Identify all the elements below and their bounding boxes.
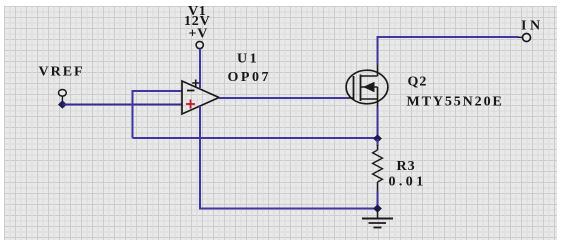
svg-text:+V: +V (189, 27, 209, 42)
power symbol +V (189, 27, 209, 49)
op-amp U1 (182, 80, 219, 115)
wire feedback horizontal to R3 top node (133, 137, 378, 139)
wire Q2 source down to R3 (377, 107, 379, 139)
junction R3 top node (373, 134, 382, 143)
ground (362, 209, 393, 228)
transistor Q2 (346, 64, 388, 107)
wire V- run to ground node (199, 208, 378, 210)
wire drain to IN terminal (377, 36, 519, 38)
terminal VREF (59, 90, 67, 104)
svg-text:0.01: 0.01 (389, 175, 427, 190)
wire op-amp V- pin down (199, 106, 201, 210)
svg-text:OP07: OP07 (228, 70, 271, 85)
svg-text:R3: R3 (397, 159, 416, 174)
wire op-amp output to Q2 gate (219, 97, 347, 99)
wire Q2 drain up (377, 36, 379, 65)
junction VREF node (58, 100, 67, 109)
wire +V supply down to op-amp V+ pin (199, 49, 201, 88)
svg-text:U1: U1 (237, 52, 259, 67)
resistor R3 (373, 139, 383, 209)
wire op-amp inverting input stub (133, 90, 183, 92)
terminal IN (518, 34, 531, 42)
junction ground node (373, 204, 382, 213)
svg-text:VREF: VREF (39, 65, 85, 80)
wire VREF to op-amp non-inverting input (62, 104, 182, 106)
svg-text:Q2: Q2 (408, 75, 428, 90)
svg-text:IN: IN (521, 19, 544, 34)
wire feedback vertical segment (132, 90, 134, 138)
svg-text:MTY55N20E: MTY55N20E (407, 95, 504, 110)
